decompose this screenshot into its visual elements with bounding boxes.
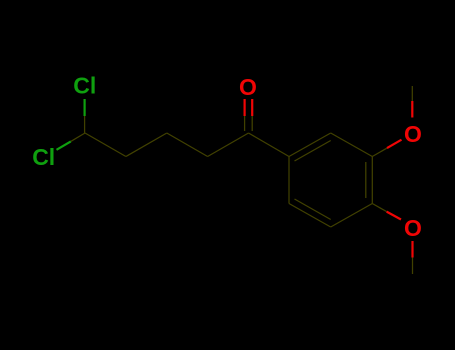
bond C5-Cl (left), chlorine half [57,141,71,149]
benzene ring edge i1-i2 [289,133,331,157]
svg-text:O: O [404,121,422,147]
benzene ring edge i3-i4 [371,157,373,204]
bond ring i3 - O (upper methoxy), carbon half [372,148,387,156]
bond O-CH3 (lower methoxy), oxygen half [411,241,413,258]
carbonyl C=O double bond, oxygen halves [244,99,246,116]
benzene inner double i1-i2 [295,141,331,162]
bond ring i4 - O (lower methoxy), oxygen half [387,212,401,220]
benzene ring edge i2-i3 [331,133,373,157]
benzene inner double i5-i6 [295,199,331,220]
bond C5-Cl (left), carbon half [71,133,85,141]
carbonyl C=O double bond, carbon halves [244,116,246,131]
benzene inner double i3-i4 [365,162,367,198]
wire chain C4-C3 [126,133,167,157]
benzene ring edge i4-i5 [331,204,373,228]
bond O-CH3 (upper methoxy), carbon half [411,86,413,101]
benzene ring edge i5-i6 [289,204,331,228]
bond O-CH3 (upper methoxy), oxygen half [411,101,413,118]
svg-text:O: O [404,215,422,241]
benzene ring edge i6-i1 [288,157,290,204]
svg-text:Cl: Cl [73,73,96,99]
bond C5-Cl (top), chlorine half [83,99,85,116]
wire chain C3-C2 [167,133,208,157]
wire chain C2-C1 [208,133,249,157]
svg-text:Cl: Cl [32,144,55,170]
bond C1-ring ipso [249,133,290,157]
wire chain C5-C4 [85,133,126,157]
bond ring i4 - O (lower methoxy), carbon half [372,204,386,212]
svg-text:O: O [239,74,257,100]
bond C5-Cl (top), carbon half [84,116,86,133]
bond ring i3 - O (upper methoxy), oxygen half [387,140,402,148]
bond O-CH3 (lower methoxy), carbon half [412,258,414,275]
